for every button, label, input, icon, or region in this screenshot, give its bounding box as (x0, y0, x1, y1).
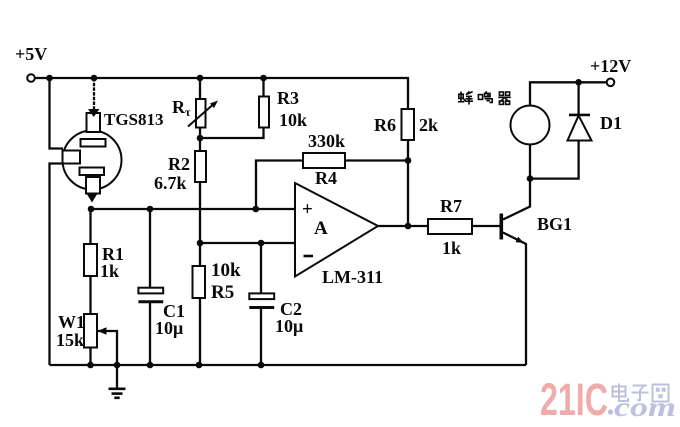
svg-text:R4: R4 (315, 168, 337, 188)
svg-text:10k: 10k (211, 260, 241, 281)
svg-text:330k: 330k (308, 131, 345, 151)
svg-text:R3: R3 (277, 88, 299, 108)
svg-text:10k: 10k (279, 110, 307, 130)
svg-text:R5: R5 (211, 282, 234, 303)
svg-text:BG1: BG1 (537, 214, 572, 234)
svg-text:+12V: +12V (590, 56, 631, 76)
svg-text:10μ: 10μ (155, 318, 183, 338)
svg-text:15k: 15k (56, 330, 84, 350)
svg-text:6.7k: 6.7k (154, 173, 187, 193)
svg-text:10μ: 10μ (275, 316, 303, 336)
svg-text:2k: 2k (419, 115, 438, 135)
svg-text:R2: R2 (168, 154, 190, 174)
svg-text:LM-311: LM-311 (322, 267, 383, 287)
svg-text:D1: D1 (600, 113, 622, 133)
svg-text:R7: R7 (440, 196, 462, 216)
svg-text:A: A (314, 218, 328, 239)
svg-text:+5V: +5V (15, 44, 47, 64)
svg-text:W1: W1 (58, 312, 85, 332)
svg-text:1k: 1k (100, 261, 119, 281)
svg-text:TGS813: TGS813 (104, 110, 164, 129)
svg-text:R6: R6 (374, 115, 396, 135)
svg-text:21IC: 21IC (540, 374, 608, 425)
svg-text:1k: 1k (442, 238, 461, 258)
svg-text:+: + (302, 199, 313, 220)
